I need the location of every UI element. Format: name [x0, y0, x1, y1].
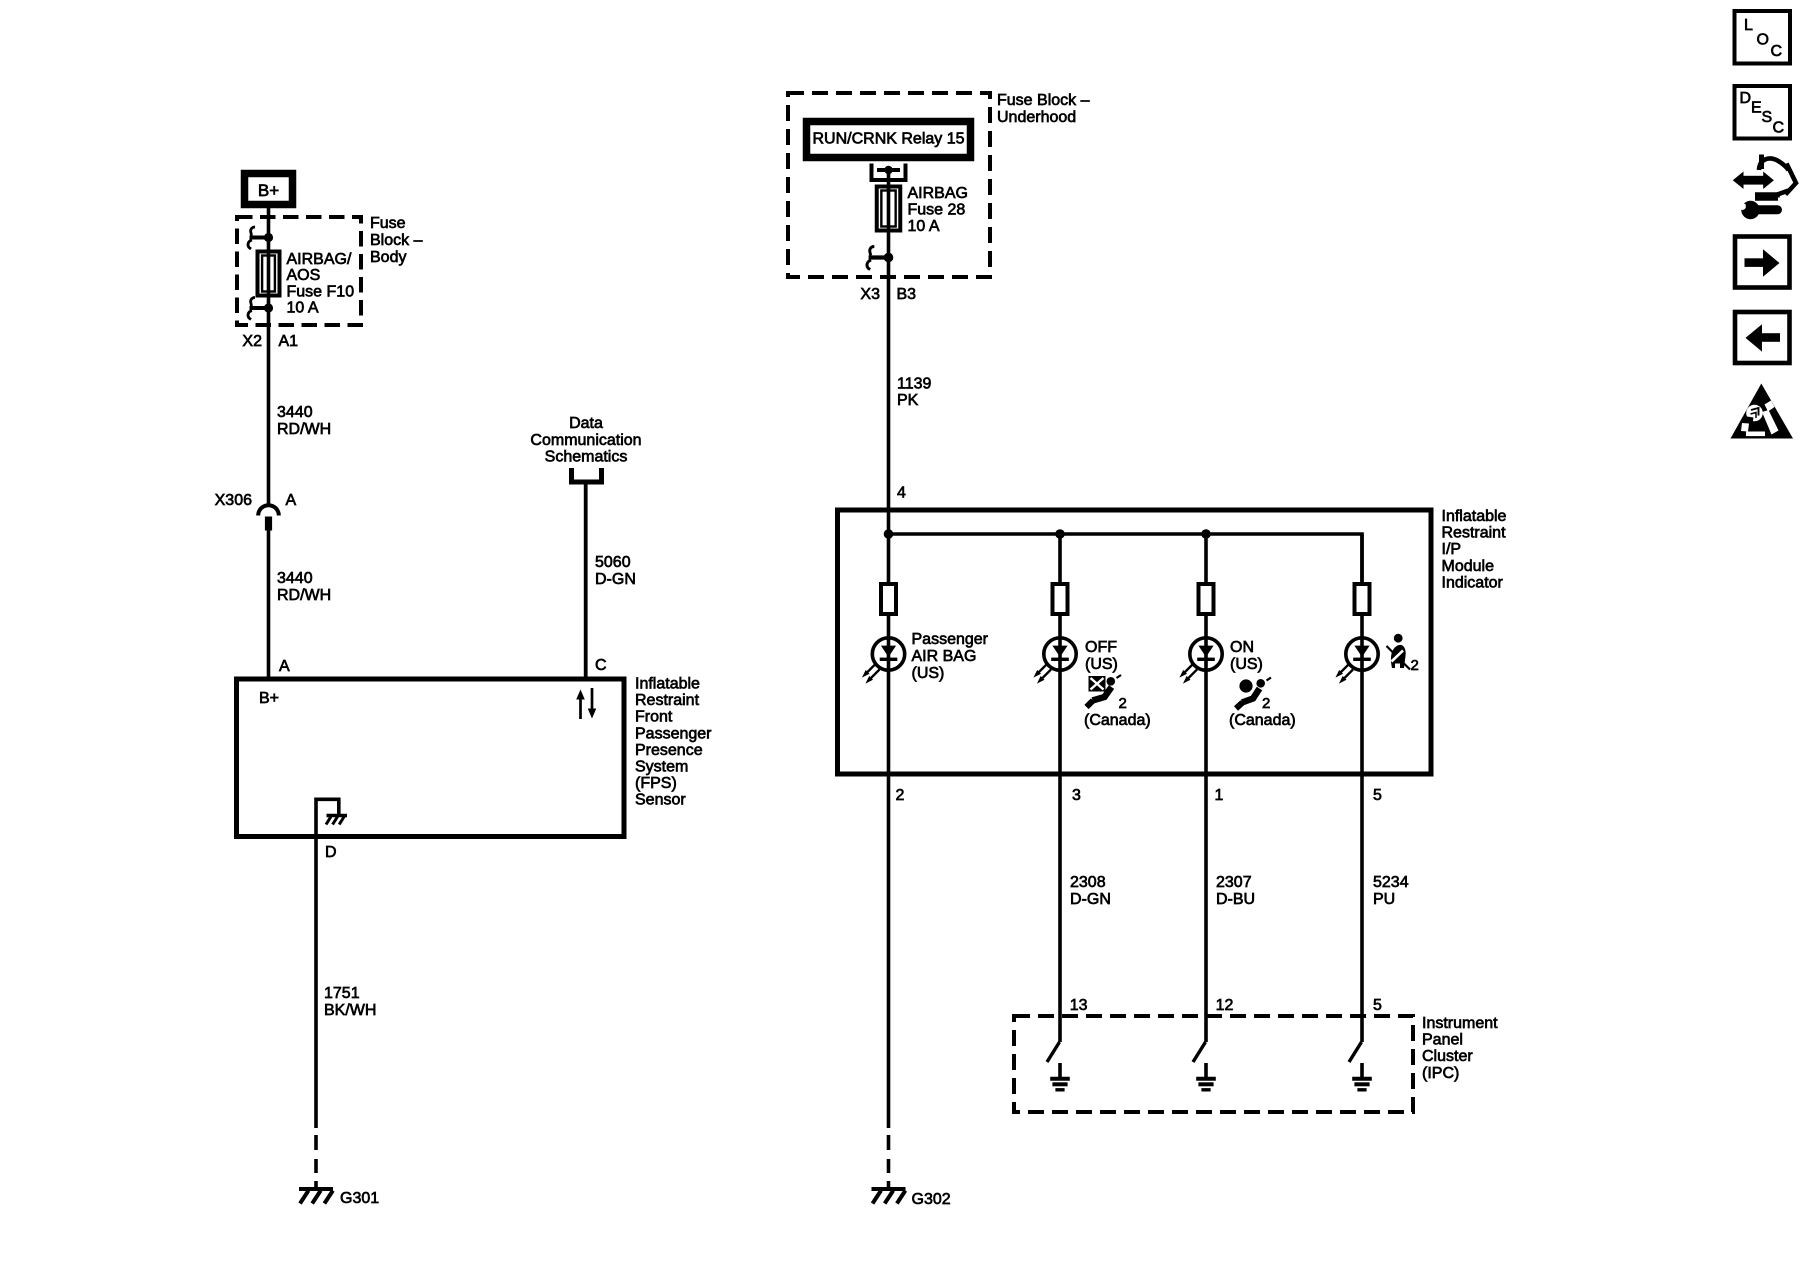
svg-text:C: C [1771, 43, 1783, 60]
svg-text:AOS: AOS [287, 267, 321, 284]
wire X306 to FPS sensor [267, 531, 271, 680]
svg-text:(US): (US) [1085, 656, 1118, 673]
ground (IPC) at x=1060 [1050, 1063, 1070, 1090]
svg-text:G302: G302 [912, 1191, 951, 1208]
svg-text:D-GN: D-GN [595, 571, 636, 588]
icon diagnostic arrows and wrench [1733, 155, 1796, 220]
svg-text:3: 3 [1072, 787, 1081, 804]
svg-text:Indicator: Indicator [1442, 574, 1504, 591]
svg-text:BK/WH: BK/WH [324, 1002, 376, 1019]
icon LOC [1735, 11, 1791, 64]
label Inflatable Restraint Front Passenger Presence System (FPS) Sensor [635, 676, 712, 809]
svg-text:A1: A1 [279, 333, 299, 350]
svg-text:13: 13 [1070, 997, 1088, 1014]
wire label 1139 PK [897, 376, 932, 410]
svg-text:Schematics: Schematics [545, 449, 628, 466]
wire label 1751 BK/WH [324, 985, 376, 1019]
svg-text:A: A [286, 492, 297, 509]
svg-text:Inflatable: Inflatable [635, 676, 700, 693]
svg-text:2: 2 [1411, 657, 1419, 674]
svg-text:Panel: Panel [1422, 1032, 1463, 1049]
svg-text:Module: Module [1442, 558, 1495, 575]
svg-text:10 A: 10 A [908, 218, 940, 235]
wire to G302 dashed end [887, 1135, 891, 1188]
label Instrument Panel Cluster (IPC) [1422, 1015, 1498, 1082]
relay output terminal [872, 164, 906, 181]
switch to ground (IPC) at x=1362 [1349, 1016, 1362, 1062]
svg-text:1751: 1751 [324, 985, 360, 1002]
svg-text:AIRBAG/: AIRBAG/ [287, 251, 352, 268]
svg-text:Inflatable: Inflatable [1442, 508, 1507, 525]
svg-text:System: System [635, 759, 688, 776]
svg-text:(Canada): (Canada) [1229, 712, 1296, 729]
inline connector X306 [258, 505, 279, 530]
svg-text:RD/WH: RD/WH [277, 587, 331, 604]
svg-text:(IPC): (IPC) [1422, 1065, 1459, 1082]
svg-text:RD/WH: RD/WH [277, 421, 331, 438]
svg-text:RUN/CRNK Relay 15: RUN/CRNK Relay 15 [812, 131, 964, 148]
svg-text:PU: PU [1373, 891, 1395, 908]
label ON (US) [1230, 639, 1263, 673]
wire D to G301 [314, 836, 318, 1128]
LED indicator passenger air bag lamp [862, 638, 905, 684]
svg-text:Block –: Block – [370, 232, 423, 249]
svg-text:X2: X2 [242, 333, 262, 350]
svg-text:2: 2 [1262, 695, 1270, 712]
wire through fuse F10 [267, 237, 271, 308]
svg-text:Communication: Communication [530, 432, 641, 449]
wire data comm to FPS terminal C [584, 484, 588, 679]
ground G302 [872, 1189, 906, 1204]
bidirectional data arrows [576, 688, 596, 719]
svg-text:Fuse: Fuse [370, 215, 406, 232]
svg-text:2: 2 [896, 787, 905, 804]
svg-text:C: C [595, 657, 607, 674]
instrument panel cluster dashed box [1014, 1016, 1413, 1112]
svg-text:Presence: Presence [635, 742, 703, 759]
svg-text:2308: 2308 [1070, 874, 1106, 891]
svg-text:5: 5 [1373, 787, 1382, 804]
svg-text:Data: Data [569, 415, 603, 432]
svg-text:Sensor: Sensor [635, 792, 686, 809]
ground (IPC) at x=1206 [1196, 1063, 1216, 1090]
label Fuse Block - Underhood [997, 92, 1090, 126]
svg-text:Fuse 28: Fuse 28 [908, 202, 966, 219]
svg-text:PK: PK [897, 392, 919, 409]
wire label 3440 RD/WH (lower) [277, 570, 331, 604]
svg-text:(US): (US) [912, 665, 945, 682]
svg-text:Restraint: Restraint [635, 692, 700, 709]
svg-text:2307: 2307 [1216, 874, 1252, 891]
svg-text:A: A [279, 658, 290, 675]
wire label 2307 D-BU [1216, 874, 1255, 908]
label Data Communication Schematics [530, 415, 641, 466]
svg-text:D-BU: D-BU [1216, 891, 1255, 908]
svg-text:1: 1 [1215, 787, 1224, 804]
resistor on lamp [1199, 584, 1214, 614]
svg-text:B3: B3 [897, 286, 917, 303]
svg-text:Body: Body [370, 249, 406, 266]
svg-text:(FPS): (FPS) [635, 775, 677, 792]
resistor off lamp [1053, 584, 1068, 614]
switch to ground (IPC) at x=1060 [1047, 1016, 1060, 1062]
wire branch on lamp [1204, 534, 1208, 1016]
svg-text:(US): (US) [1230, 656, 1263, 673]
junction node pin4/bus [884, 529, 894, 539]
fuse F10 [258, 252, 280, 296]
svg-text:Underhood: Underhood [997, 109, 1076, 126]
label AIRBAG/AOS Fuse F10 10 A [287, 251, 355, 317]
svg-text:10 A: 10 A [287, 300, 319, 317]
LED indicator off lamp [1033, 638, 1076, 684]
svg-text:12: 12 [1216, 997, 1234, 1014]
icon DESC [1735, 86, 1791, 139]
svg-text:(Canada): (Canada) [1084, 712, 1151, 729]
fuse 28 [877, 187, 901, 231]
wire B+ to fuse block body [267, 208, 271, 236]
ground (IPC) at x=1362 [1352, 1063, 1372, 1090]
svg-text:AIR BAG: AIR BAG [912, 648, 977, 665]
fuse F10 clip top [248, 227, 273, 249]
wire fuse block to connector X306 [267, 308, 271, 505]
svg-text:B+: B+ [258, 181, 279, 200]
svg-text:S: S [1762, 109, 1773, 126]
junction node branch 3 [1055, 529, 1065, 539]
svg-text:D: D [1740, 90, 1752, 107]
svg-text:X306: X306 [215, 492, 252, 509]
pictogram airbag on (Canada) [1236, 678, 1271, 709]
power symbol B+ [245, 174, 293, 205]
icon arrow right [1735, 237, 1790, 288]
svg-text:OFF: OFF [1085, 639, 1117, 656]
fuse 28 output clip [867, 246, 893, 269]
switch to ground (IPC) at x=1206 [1193, 1016, 1206, 1062]
off-page connector to Data Communication Schematics [572, 468, 602, 482]
svg-text:Passenger: Passenger [635, 725, 712, 742]
inflatable restraint I/P module indicator box [838, 510, 1432, 774]
svg-text:G301: G301 [340, 1190, 379, 1207]
pictogram airbag off (Canada) [1087, 675, 1122, 707]
FPS sensor box [237, 679, 625, 837]
wire relay to fuse 28 [887, 170, 891, 188]
svg-text:L: L [1744, 17, 1753, 34]
ground G301 [299, 1189, 333, 1204]
resistor passenger air bag lamp [881, 584, 896, 614]
fuse block - body dashed box [237, 217, 361, 325]
svg-text:Passenger: Passenger [912, 631, 989, 648]
LED indicator seat belt lamp [1335, 638, 1378, 684]
wire branch off lamp [1058, 534, 1062, 1016]
svg-text:5234: 5234 [1373, 874, 1409, 891]
svg-text:Restraint: Restraint [1442, 525, 1507, 542]
svg-text:D-GN: D-GN [1070, 891, 1111, 908]
label AIRBAG Fuse 28 10 A [908, 185, 968, 235]
svg-text:B+: B+ [259, 690, 279, 707]
wire fuse 28 to clip [887, 230, 891, 258]
svg-text:ON: ON [1230, 639, 1254, 656]
wire branch passenger air bag lamp [887, 534, 891, 1128]
fuse F10 clip bottom [248, 298, 273, 320]
svg-text:C: C [1773, 120, 1785, 137]
wire label 2308 D-GN [1070, 874, 1111, 908]
svg-text:X3: X3 [860, 286, 880, 303]
svg-text:2: 2 [1119, 695, 1127, 712]
internal bus wire [889, 534, 1363, 584]
svg-text:E: E [1751, 100, 1762, 117]
fuse block - underhood dashed box [788, 93, 990, 277]
wire label 3440 RD/WH (upper) [277, 404, 331, 438]
svg-text:Fuse F10: Fuse F10 [287, 283, 355, 300]
svg-text:I/P: I/P [1442, 541, 1462, 558]
label Inflatable Restraint I/P Module Indicator [1442, 508, 1507, 591]
svg-text:5060: 5060 [595, 554, 631, 571]
label Passenger AIR BAG (US) [912, 631, 989, 682]
internal ground path of FPS sensor [316, 799, 347, 836]
svg-text:1139: 1139 [897, 376, 932, 393]
icon arrow left [1735, 312, 1790, 363]
svg-text:5: 5 [1373, 997, 1382, 1014]
wire label 5234 PU [1373, 874, 1409, 908]
junction node branch 1 [1201, 529, 1211, 539]
pictogram fasten seat belt [1387, 634, 1411, 670]
svg-text:3440: 3440 [277, 404, 313, 421]
svg-text:Instrument: Instrument [1422, 1015, 1498, 1032]
svg-text:3440: 3440 [277, 570, 313, 587]
wire label 5060 D-GN [595, 554, 636, 588]
relay RUN/CRNK Relay 15 [807, 122, 971, 158]
svg-text:Cluster: Cluster [1422, 1048, 1473, 1065]
icon SIR caution triangle [1731, 384, 1794, 439]
wire clip to I/P module pin 4 [887, 258, 891, 535]
svg-text:Fuse Block –: Fuse Block – [997, 92, 1090, 109]
LED indicator on lamp [1179, 638, 1222, 684]
wire branch seat belt lamp [1360, 534, 1364, 1016]
label OFF (US) [1085, 639, 1118, 673]
svg-text:Front: Front [635, 709, 673, 726]
svg-text:4: 4 [897, 485, 906, 502]
label Fuse Block - Body [370, 215, 423, 266]
svg-text:AIRBAG: AIRBAG [908, 185, 968, 202]
svg-text:O: O [1757, 32, 1769, 49]
resistor seat belt lamp [1355, 584, 1370, 614]
svg-text:D: D [325, 844, 337, 861]
